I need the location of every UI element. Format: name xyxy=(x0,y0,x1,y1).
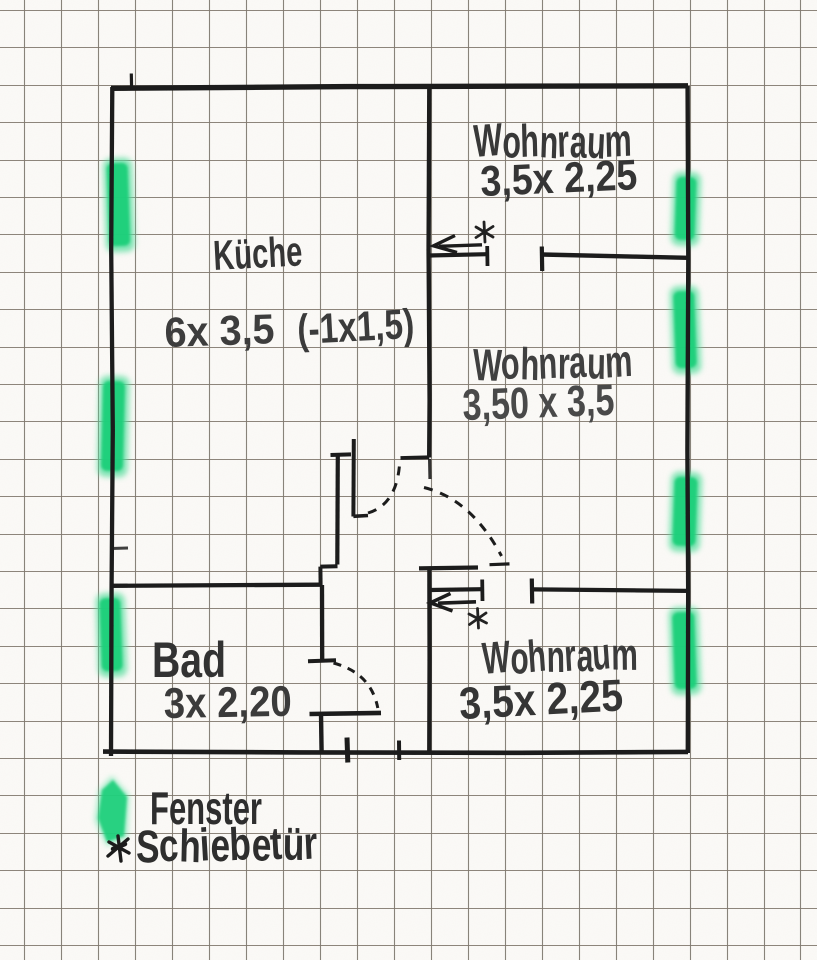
inner wall Kueche/Wohnraum (x=429) xyxy=(429,87,430,458)
arrow head lower xyxy=(431,594,453,612)
svg-text:3,5x 2,25: 3,5x 2,25 xyxy=(458,669,624,729)
jamb tick at wall end (401-429,458) xyxy=(401,455,430,460)
Kueche door leaf foot xyxy=(353,514,368,518)
svg-text:3,5x 2,25: 3,5x 2,25 xyxy=(479,151,638,206)
svg-text:3x 2,20: 3x 2,20 xyxy=(163,678,292,728)
door jamb tick (482,590) xyxy=(480,580,484,602)
Bad right wall upper (322,585-661) xyxy=(320,585,325,661)
Kueche door leaf (vertical) xyxy=(351,439,355,517)
sliding door leaf upper xyxy=(429,254,487,255)
legend asterisk (Schiebetuer symbol) xyxy=(108,836,129,861)
svg-text:Schiebetür: Schiebetür xyxy=(135,816,319,873)
arc end dash (490-509,564) xyxy=(490,562,510,566)
arrow shaft upper sliding door xyxy=(439,245,482,247)
window highlight right 1 (Wohnraum top) xyxy=(671,172,702,247)
step wall vertical (320,566-585) xyxy=(318,567,322,585)
legend window highlight blob xyxy=(95,776,129,846)
door jamb tick (542,258) xyxy=(540,247,545,272)
svg-text:6x 3,5: 6x 3,5 xyxy=(164,305,276,356)
sliding door leaf lower xyxy=(430,587,482,592)
asterisk lower sliding door xyxy=(469,609,487,629)
window highlight right 4 (Wohnraum bottom) xyxy=(668,607,701,696)
door jamb tick (532,590) xyxy=(530,579,535,604)
entrance door tick (399,752) xyxy=(397,741,401,761)
svg-text:(-1x1,5): (-1x1,5) xyxy=(296,300,415,353)
left wall pencil tick (y=548) xyxy=(111,547,128,551)
Bad door swing arc (dashed) xyxy=(334,663,378,708)
hall left wall (x=338) xyxy=(335,455,340,565)
door jamb tick (487,255) xyxy=(485,246,489,266)
asterisk upper sliding door xyxy=(476,222,493,242)
Bad right wall lower (321,713-752) xyxy=(319,714,324,753)
wall Wohnraum-top bottom (542-688) xyxy=(542,255,688,258)
hall door swing arc (dashed, into Wohnraum mid) xyxy=(424,488,502,557)
window highlight left 3 (Bad) xyxy=(96,593,128,678)
Kueche door swing arc (dashed) xyxy=(368,460,400,513)
hall top-left jamb tick (331-351,455) xyxy=(331,452,352,457)
outer wall top xyxy=(111,86,688,89)
wall Wohnraum-bottom top (534-688) xyxy=(534,589,688,591)
wall x=429 lower (568-752) xyxy=(427,569,432,753)
window highlight right 2 (Wohnraum top/mid) xyxy=(669,286,701,375)
outer wall right xyxy=(685,86,690,753)
door leaf stub (419-478,568) xyxy=(419,565,478,570)
arrow head upper xyxy=(434,236,458,253)
outer wall bottom xyxy=(103,752,688,753)
outer wall left xyxy=(111,87,113,756)
Bad top wall (110-320,585) xyxy=(110,585,321,586)
svg-text:Küche: Küche xyxy=(212,227,303,279)
step wall horizontal (320-338,566) xyxy=(320,564,337,568)
svg-text:3,50 x 3,5: 3,50 x 3,5 xyxy=(462,376,616,430)
window highlight left 2 (Kueche lower) xyxy=(97,376,130,478)
top-left pen stub xyxy=(130,74,134,89)
entrance door tick (347,752) xyxy=(345,738,351,763)
Bad door top jamb tick xyxy=(308,660,336,661)
arrow shaft lower sliding door xyxy=(438,602,476,603)
window highlight left 1 (Kueche upper) xyxy=(103,158,135,253)
window highlight right 3 (Wohnraum mid) xyxy=(669,471,703,552)
wall x=429 continuation below jamb (458-479) xyxy=(428,459,432,479)
Bad door leaf (310-381,713) xyxy=(310,713,382,714)
